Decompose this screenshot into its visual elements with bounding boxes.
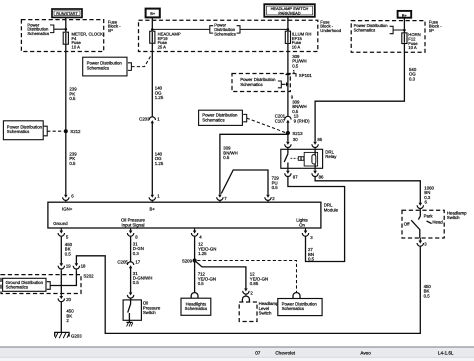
pin 85 into DRL relay (312, 142, 318, 150)
module label Lights On (296, 218, 308, 228)
svg-text:Aveo: Aveo (360, 350, 371, 355)
wire 31 D-GN/WH 0.5 (C205 to oil pressure switch) (131, 268, 153, 293)
svg-text:Park: Park (424, 213, 434, 218)
connector C201 / C107 pins 13 / 9 (RHD) (275, 114, 310, 124)
svg-text:RUN/START: RUN/START (56, 12, 78, 16)
svg-text:IGN+: IGN+ (62, 206, 73, 211)
relay coil (85-86) (298, 149, 317, 168)
wire 31 D-GN 0.3 (module pin 8 to C205) (131, 236, 144, 262)
svg-text:S213: S213 (292, 131, 303, 136)
bracket left to HEADLAMP fuse wire (152, 26, 213, 33)
svg-text:PARK/HEAD: PARK/HEAD (278, 10, 300, 15)
svg-text:9 (RHD): 9 (RHD) (294, 118, 310, 123)
svg-text:On: On (299, 222, 305, 227)
svg-text:1.25: 1.25 (155, 161, 164, 166)
svg-text:I/P: I/P (429, 28, 434, 33)
svg-text:Schematics: Schematics (7, 129, 30, 134)
svg-text:Schematics: Schematics (240, 82, 263, 87)
schematic ref box: Headlights Schematics (181, 293, 211, 316)
svg-text:07: 07 (255, 350, 261, 355)
svg-text:2: 2 (272, 196, 275, 201)
pin 3 into DRL module (bottom) (302, 228, 313, 240)
svg-text:0.5: 0.5 (424, 293, 431, 298)
svg-text:Schematics: Schematics (6, 285, 29, 290)
connector C205 pin 17 (117, 260, 140, 269)
wire 12 YE/O-GN 1.25 (module pin 4 to S209) (195, 236, 217, 261)
pin 3 out of headlamp switch (417, 238, 427, 247)
pin 86 out of DRL relay (312, 168, 324, 179)
svg-text:19: 19 (66, 263, 71, 268)
wire 239 PK 0.5 (fuse F4 to S212) (66, 44, 77, 131)
splice S213 (286, 131, 303, 136)
relay switch contact (30-87) (284, 149, 288, 168)
svg-text:86: 86 (319, 175, 324, 180)
wire S213 to DRL relay pin 30 (288, 133, 298, 142)
fuse F4 METER, CLOCK 10A (63, 32, 103, 50)
svg-text:Switch: Switch (143, 310, 156, 315)
svg-text:0.5: 0.5 (292, 63, 299, 68)
schematic ref box: Power Distribution Schematics (bottom) (278, 293, 322, 316)
dashed leader S209 to Power Distribution Schematics (197, 261, 296, 293)
wire 450 BK 2 (S202 to G203) (61, 302, 74, 332)
headlamp switch (dashed box) (402, 210, 467, 238)
schematic ref: Power Distribution Schematics (underhood box) (214, 23, 236, 37)
wire 450 BK 0.5 (headlamp switch to S202 pin 18) (76, 246, 431, 333)
svg-text:4: 4 (199, 235, 202, 240)
wire 239 PK 0.5 (S212 to DRL module pin 6) (66, 131, 77, 195)
svg-text:0.5: 0.5 (223, 155, 230, 160)
svg-text:Schematics: Schematics (354, 27, 376, 32)
label Fuse Block - I/P (column 1) (108, 19, 121, 33)
wire 450 BK 0.5 (module pin 5 to S202 pin 19) (61, 236, 72, 263)
svg-text:7: 7 (224, 196, 227, 201)
svg-text:30: 30 (293, 137, 298, 142)
svg-text:1.25: 1.25 (198, 251, 207, 256)
wire 140 OG 1.25 (C203 to DRL module pin 1) (152, 123, 164, 195)
DRL module U1 (48, 202, 339, 228)
pin 87 out of DRL relay (285, 168, 299, 179)
pin 18 into ground distribution (73, 263, 86, 274)
wire relay 87 to DRL module pin 3 (27 BN 0.5) (288, 176, 345, 261)
fuse F12 HORN 10A (402, 32, 421, 50)
fuse EF19 HEADLAMP 25A (150, 31, 181, 50)
svg-text:0.5: 0.5 (69, 96, 76, 101)
splice S209 (182, 258, 197, 263)
fuse block I/P dashed box (column 1) (21, 20, 103, 52)
wire 309 BN/WH 0.5 (S213 branch to module pin 7) (220, 134, 288, 195)
svg-text:S212: S212 (70, 129, 81, 134)
schematic ref: Power Distribution Schematics (column 4) (354, 23, 389, 32)
svg-text:17: 17 (135, 260, 140, 265)
svg-text:Schematics: Schematics (87, 65, 110, 70)
bracket to fuse F4 wire (50, 25, 66, 33)
wire relay 86 to headlamp switch pin 6 (1060 BN 0.3) (315, 176, 434, 203)
schematic ref box: Ground Distribution Schematics (3, 278, 51, 291)
relay DRL (281, 149, 337, 168)
svg-text:B+: B+ (402, 13, 408, 18)
svg-text:Schematics: Schematics (27, 31, 49, 36)
ground G203 (54, 332, 82, 338)
pin 19 into ground distribution (58, 263, 71, 274)
bracket right to ILLUM RH fuse wire (237, 26, 288, 33)
svg-text:C107: C107 (275, 118, 286, 123)
svg-text:Schematics: Schematics (185, 306, 208, 311)
svg-text:C203: C203 (139, 117, 150, 122)
svg-text:B+: B+ (150, 11, 156, 16)
svg-text:0.5: 0.5 (272, 185, 279, 190)
svg-text:0.5: 0.5 (65, 251, 72, 256)
svg-text:3: 3 (310, 235, 313, 240)
module label IGN+ (62, 206, 73, 211)
svg-text:Switch: Switch (447, 215, 460, 220)
connector C203 pin 1 (139, 117, 160, 124)
svg-text:87: 87 (293, 175, 298, 180)
oil pressure switch (123, 300, 161, 320)
pin 1 into DRL module (149, 194, 160, 203)
svg-text:0.5: 0.5 (198, 281, 205, 286)
pin 5 out of DRL module (58, 228, 69, 240)
svg-text:0.85: 0.85 (250, 281, 259, 286)
svg-text:2: 2 (66, 318, 69, 323)
wire 540 OG 0.3 (fuse F12 to DRL relay pin 85) (315, 44, 417, 143)
svg-text:8: 8 (135, 235, 138, 240)
power node RUN/START (52, 9, 82, 17)
pin 2 into DRL module (265, 195, 276, 203)
pin 7 into DRL module (217, 195, 228, 203)
svg-text:Underhood: Underhood (320, 28, 341, 33)
power node HEADLAMP SWITCH PARK/HEAD (264, 4, 315, 17)
pin 6 into DRL module (63, 194, 75, 203)
svg-text:10 A: 10 A (72, 45, 81, 50)
svg-text:10 A: 10 A (292, 45, 301, 50)
wire B+ to fuse F12 (403, 18, 406, 33)
svg-text:10 A: 10 A (408, 45, 417, 50)
relay linkage (dashed) (291, 157, 298, 159)
svg-text:20: 20 (66, 297, 71, 302)
wire B+ to fuse EF19 (151, 17, 154, 31)
pin 8 out of DRL module (127, 228, 138, 240)
module label B+ (150, 206, 156, 211)
svg-text:I/P: I/P (108, 28, 113, 33)
svg-text:18: 18 (81, 263, 86, 268)
svg-text:Module: Module (324, 207, 339, 212)
svg-text:C205: C205 (117, 260, 128, 265)
wire 309 PU/WH 0.5 (fuse EF15 to SP101) (288, 44, 307, 75)
splice pack SP101 (285, 73, 312, 78)
svg-text:5: 5 (66, 235, 69, 240)
svg-text:25 A: 25 A (158, 45, 167, 50)
pin 6 into headlamp switch (417, 200, 427, 211)
module label Oil Pressure Input Signal (121, 218, 145, 228)
svg-text:1: 1 (157, 194, 160, 199)
splice S212 (64, 129, 81, 134)
svg-text:1.25: 1.25 (155, 95, 164, 100)
svg-text:S209: S209 (182, 259, 193, 264)
module label Ground (53, 221, 68, 226)
wire 729 PU 0.5 (module pin 2) (221, 170, 279, 195)
label Fuse Block - Underhood (320, 19, 341, 33)
schematic ref box: Power Distribution Schematics (leader to S212) (3, 121, 62, 140)
svg-text:6: 6 (71, 194, 74, 199)
wire HEADLAMP SWITCH to fuse EF15 (287, 17, 290, 31)
svg-text:6: 6 (425, 200, 428, 205)
svg-text:0.3: 0.3 (133, 251, 140, 256)
svg-text:Ground: Ground (53, 221, 68, 226)
svg-text:SP101: SP101 (299, 73, 313, 78)
wire 712 YE/O-GN 0.5 (S209 to Headlights Schematics) (195, 261, 216, 293)
svg-text:B+: B+ (150, 206, 156, 211)
svg-text:3: 3 (424, 242, 427, 247)
svg-text:Switch: Switch (259, 311, 272, 316)
svg-text:0.5: 0.5 (133, 280, 140, 285)
svg-text:Schematics: Schematics (202, 117, 225, 122)
wire 12 YE/O-GN 0.85 (S209 to headlamp level switch pin 2) (195, 261, 269, 289)
svg-text:2: 2 (250, 291, 253, 296)
headlamp switch contacts Park/Head/Off (404, 210, 444, 238)
svg-text:Schematics: Schematics (214, 31, 236, 36)
svg-text:G203: G203 (71, 334, 82, 339)
bracket to HORN fuse wire (390, 26, 405, 33)
schematic ref: Power Distribution Schematics (in fuse block 1) (27, 22, 49, 36)
schematic ref dashed box: Power Distribution Schematics (at SP101) (232, 74, 290, 92)
wire RUN/START to fuse F4 (65, 17, 68, 32)
fuse EF15 ILLUM RH 10A (285, 31, 311, 50)
svg-text:S202: S202 (83, 274, 94, 279)
pin 30 into DRL relay (285, 142, 291, 150)
fuse block I/P dashed box (column 4) (351, 21, 425, 53)
fuse block Underhood dashed box (columns 2-3) (139, 20, 318, 51)
wire 309 BN/WH 0.5 (SP101 to C201) (288, 75, 307, 117)
ground distribution dashed box (S202) (1, 274, 94, 294)
schematic ref box: Power Distribution Schematics (leader to S213) (199, 110, 286, 132)
svg-text:Chevrolet: Chevrolet (275, 350, 295, 355)
svg-text:Head: Head (432, 219, 443, 224)
svg-text:Schematics: Schematics (282, 306, 305, 311)
svg-text:Input Signal: Input Signal (122, 222, 145, 227)
svg-text:1: 1 (157, 117, 160, 122)
svg-text:Relay: Relay (325, 154, 337, 159)
headlamp level switch (dashed box) (239, 296, 279, 321)
footer bar (0, 347, 474, 361)
wire (C201 to S213) (287, 122, 289, 133)
svg-text:85: 85 (317, 137, 322, 142)
pin 4 out of DRL module (191, 228, 202, 240)
svg-text:Off: Off (404, 221, 411, 226)
svg-text:0.3: 0.3 (409, 76, 416, 81)
power node B+ (column 4) (398, 11, 412, 18)
pin into oil pressure switch (127, 292, 133, 300)
svg-text:0.5: 0.5 (308, 257, 315, 262)
svg-text:L4-1.6L: L4-1.6L (438, 350, 454, 355)
ground at oil pressure switch (126, 320, 132, 326)
schematic ref box: Power Distribution Schematics (leader to underhood fuse block) (83, 55, 152, 76)
wire 140 OG 1.25 (fuse EF19 to C203) (152, 43, 164, 117)
label Fuse Block - I/P (column 4) (429, 19, 442, 33)
splice S202 wiring inside (50, 275, 76, 294)
pin 2 into headlamp level switch (243, 288, 254, 296)
pin 20 out of ground distribution (58, 294, 71, 303)
svg-text:0.5: 0.5 (69, 161, 76, 166)
power node B+ (column 2) (146, 9, 160, 18)
